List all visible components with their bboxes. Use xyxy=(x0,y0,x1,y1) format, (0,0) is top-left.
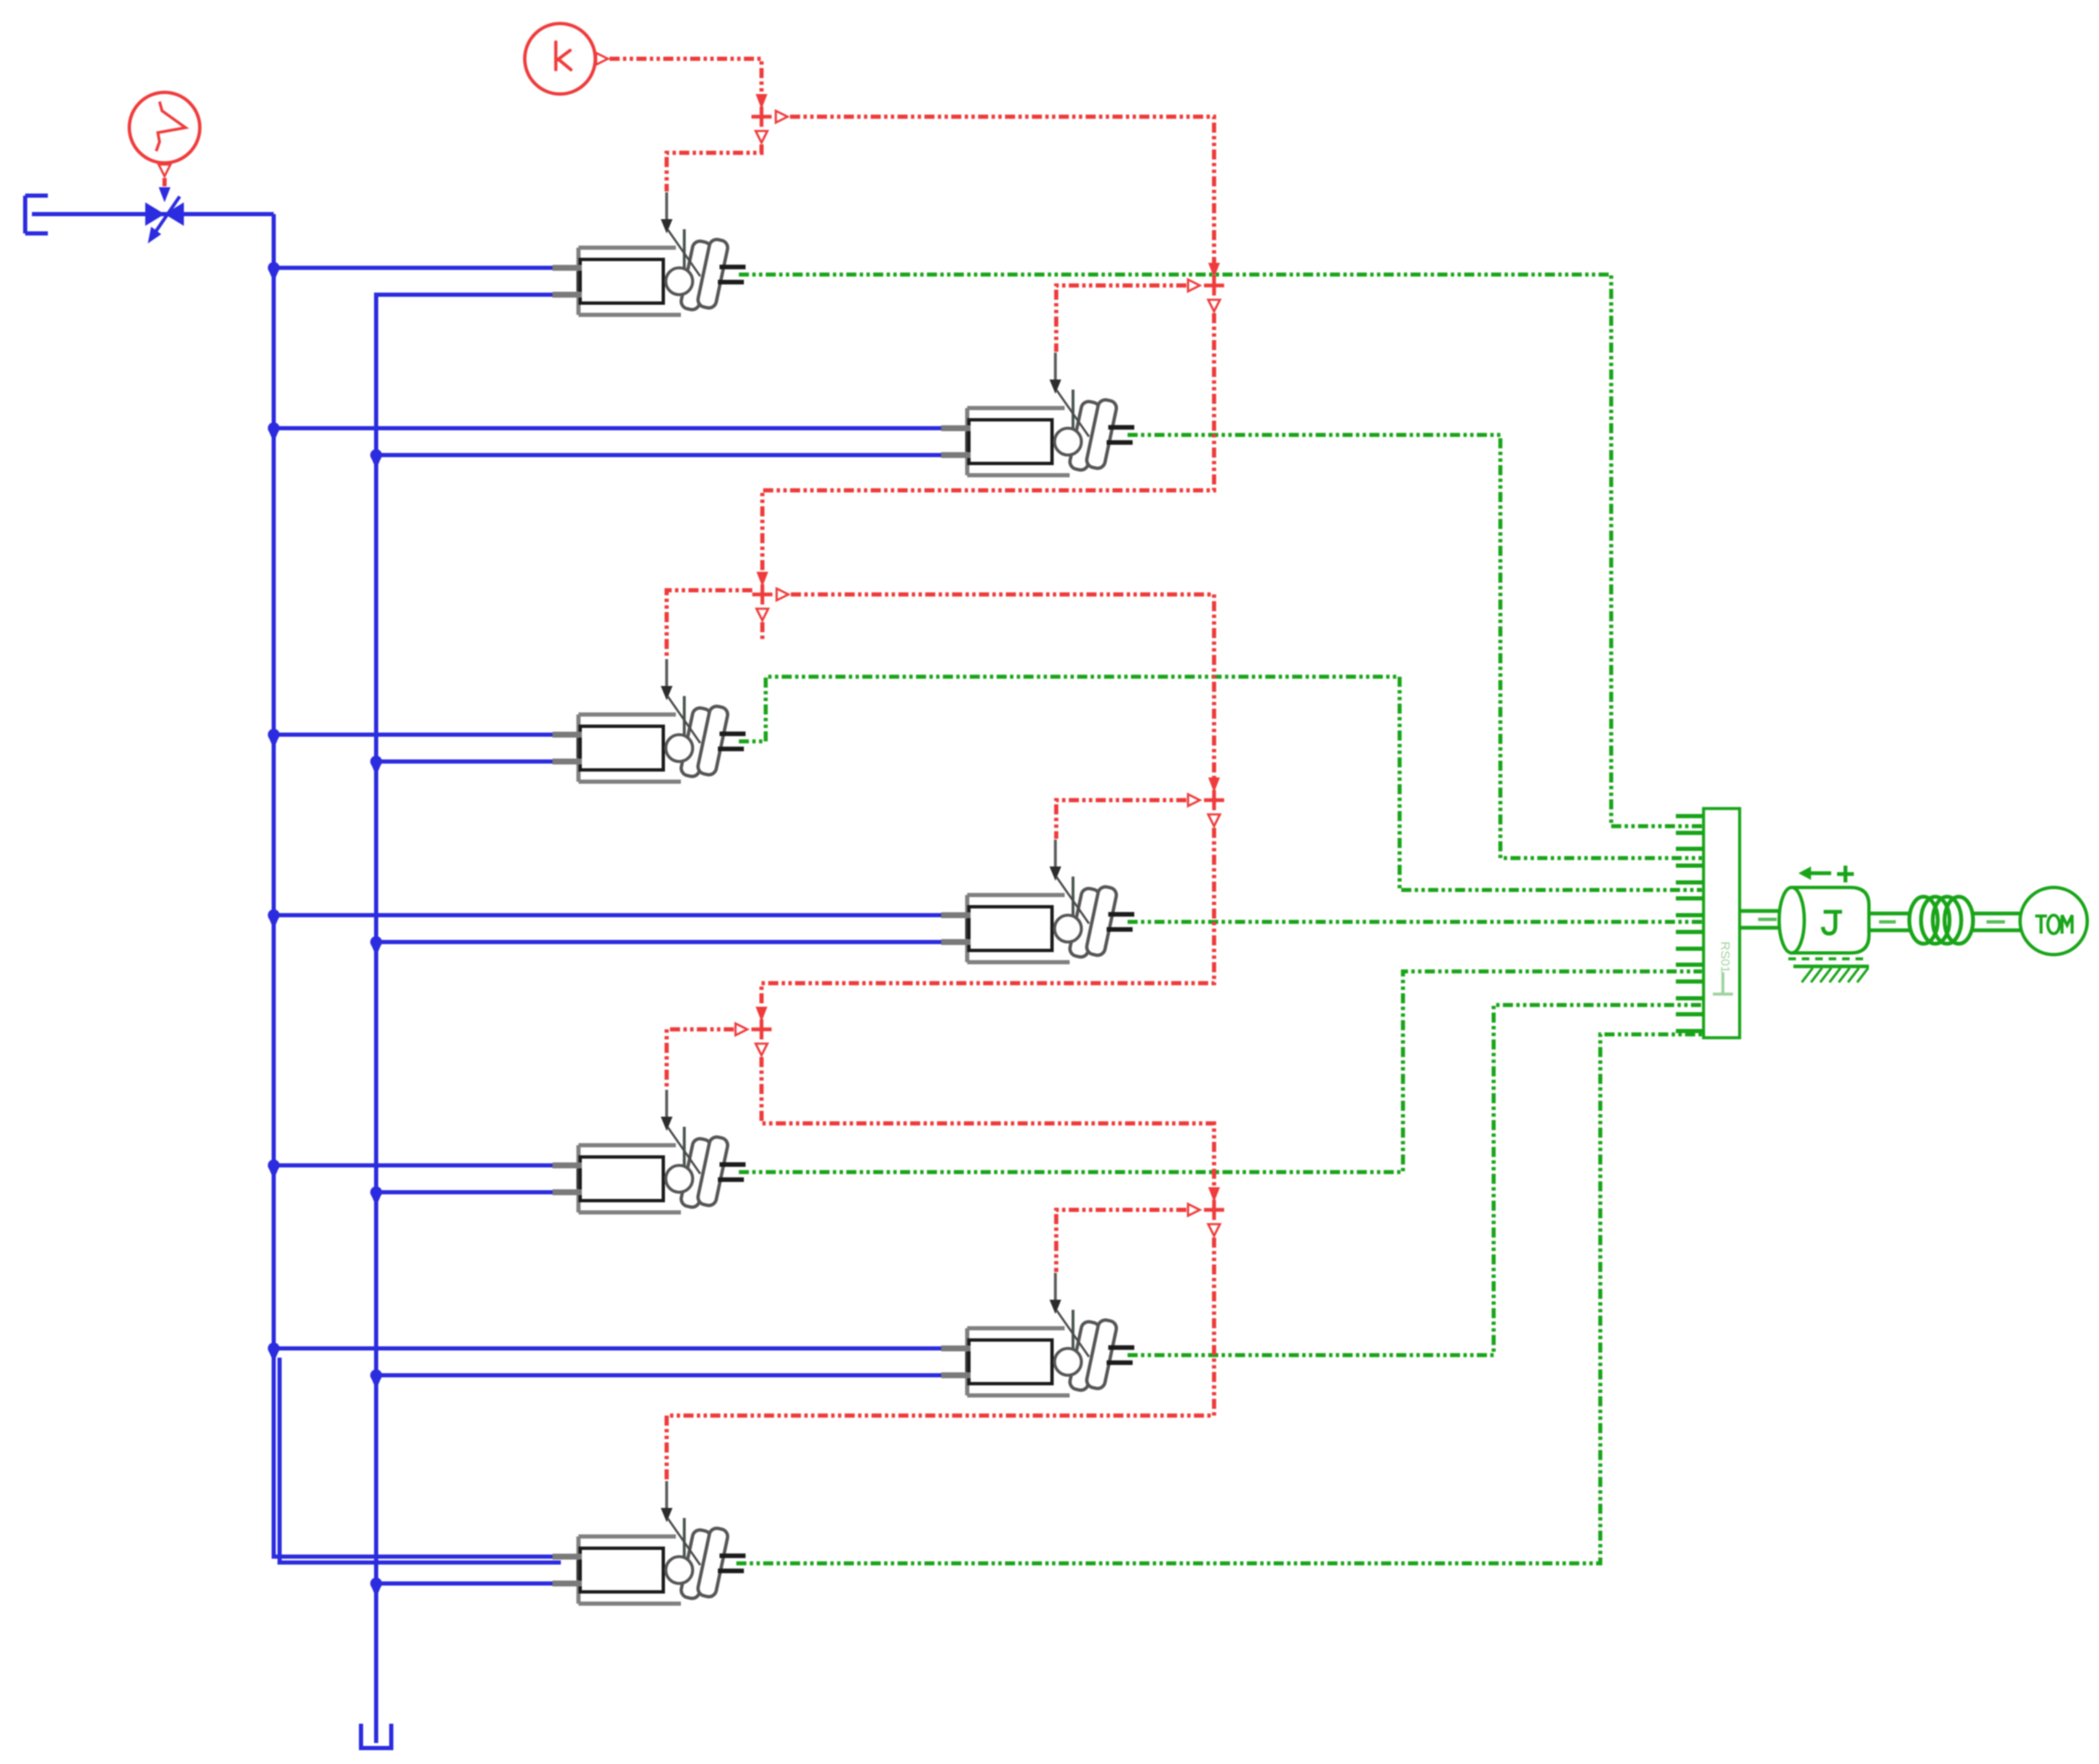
variable displacement pump P3 xyxy=(552,659,746,782)
red branch J1 to pump1 xyxy=(667,144,762,191)
wire supply to pump 6 top port xyxy=(274,1347,948,1351)
rotation direction arrows xyxy=(1807,872,1831,875)
red wire J5 to J6 xyxy=(762,1057,1214,1187)
signal junction J5 xyxy=(756,1007,767,1022)
signal junction J2 xyxy=(1208,263,1220,278)
green line pump6 to summing block xyxy=(1128,1005,1702,1355)
wire pump 1 bottom port to return bus xyxy=(376,293,559,297)
red wire J4 to J5 xyxy=(762,828,1214,1007)
red wire J1 to J2 xyxy=(790,117,1214,263)
red branch J5 to pump5 xyxy=(667,1029,734,1089)
variable displacement pump P7 xyxy=(552,1481,746,1604)
junction node return row6 xyxy=(370,1369,382,1381)
constant source k xyxy=(525,24,595,94)
valve control arrow xyxy=(159,187,170,202)
red wire J2 to J3 xyxy=(762,313,1214,572)
red wire J6 to pump7 xyxy=(667,1238,1214,1480)
wire pump 5 bottom port to return bus xyxy=(376,1191,559,1195)
wire supply to pump 5 top port xyxy=(274,1164,559,1168)
source output port xyxy=(159,165,170,176)
wire pump 3 bottom port to return bus xyxy=(376,760,559,764)
shaft summing block to inertia xyxy=(1740,911,1780,928)
wire pump 2 bottom port to return bus xyxy=(376,453,948,458)
signal source (waveform circle) xyxy=(129,92,200,163)
throttle valve xyxy=(145,202,165,226)
green line pump7 to summing block xyxy=(736,1034,1702,1563)
parallel wire to pump 7 top port xyxy=(280,1358,561,1562)
junction node return row7 xyxy=(370,1578,382,1589)
junction node return row4 xyxy=(370,936,382,948)
junction node return row2 xyxy=(370,449,382,461)
green line pump2 to summing block xyxy=(1128,435,1702,858)
ground under inertia xyxy=(1788,957,1867,961)
wire pump 4 bottom port to return bus xyxy=(376,940,948,945)
torsion spring xyxy=(1909,897,1973,944)
tank T1 (top left) xyxy=(25,196,48,233)
junction node supply row4 xyxy=(268,909,280,921)
signal junction J3 xyxy=(756,572,768,587)
junction node supply row2 xyxy=(268,422,280,434)
junction node supply row1 xyxy=(268,262,280,274)
wire pump 7 bottom port to return bus xyxy=(376,1582,559,1586)
signal junction J4 xyxy=(1208,777,1220,793)
green line pump3 to summing block xyxy=(739,677,1702,890)
rotary inertia J xyxy=(1792,887,1869,953)
red branch J3 to pump3 xyxy=(667,590,752,658)
junction node return row5 xyxy=(370,1186,382,1198)
tank T2 (bottom) xyxy=(361,1724,391,1748)
red wire k to junction J1 xyxy=(610,59,762,94)
variable displacement pump P6 xyxy=(941,1273,1134,1395)
variable displacement pump P5 xyxy=(552,1090,746,1212)
wire supply to pump 2 top port xyxy=(274,427,948,431)
variable displacement pump P2 xyxy=(941,353,1134,475)
return bus (vertical line 2) xyxy=(376,295,561,1743)
supply bus (vertical line 1) xyxy=(274,214,561,1557)
green line pump1 to summing block xyxy=(739,275,1702,826)
variable displacement pump P4 xyxy=(941,840,1134,962)
red branch J2 to pump2 xyxy=(1056,285,1186,352)
green line pump4 to summing block xyxy=(1128,920,1702,924)
red wire source to valve xyxy=(163,178,167,186)
summing gearbox block xyxy=(1676,809,1740,1038)
motor/load TOM xyxy=(2020,887,2087,955)
wire tank to valve xyxy=(32,212,274,217)
junction node supply row6 xyxy=(268,1343,280,1354)
red stub below J3 xyxy=(761,622,765,640)
shaft inertia to spring xyxy=(1869,913,1911,930)
junction node return row3 xyxy=(370,756,382,767)
wire pump 6 bottom port to return bus xyxy=(376,1374,948,1378)
red branch J6 to pump6 xyxy=(1056,1210,1186,1272)
green line pump5 to summing block xyxy=(739,971,1702,1172)
junction node supply row5 xyxy=(268,1159,280,1171)
k output port xyxy=(596,53,608,65)
junction node supply row3 xyxy=(268,729,280,741)
red wire J3 to J4 xyxy=(791,594,1214,777)
signal junction J6 xyxy=(1208,1187,1220,1202)
svg-text:RS01: RS01 xyxy=(1718,941,1732,973)
signal junction J1 xyxy=(756,94,767,109)
shaft spring to motor xyxy=(1973,913,2021,930)
red branch J4 to pump4 xyxy=(1056,800,1186,839)
wire supply to pump 1 top port xyxy=(274,266,559,270)
variable displacement pump P1 xyxy=(552,192,746,315)
wire supply to pump 4 top port xyxy=(274,913,948,918)
wire supply to pump 3 top port xyxy=(274,733,559,737)
